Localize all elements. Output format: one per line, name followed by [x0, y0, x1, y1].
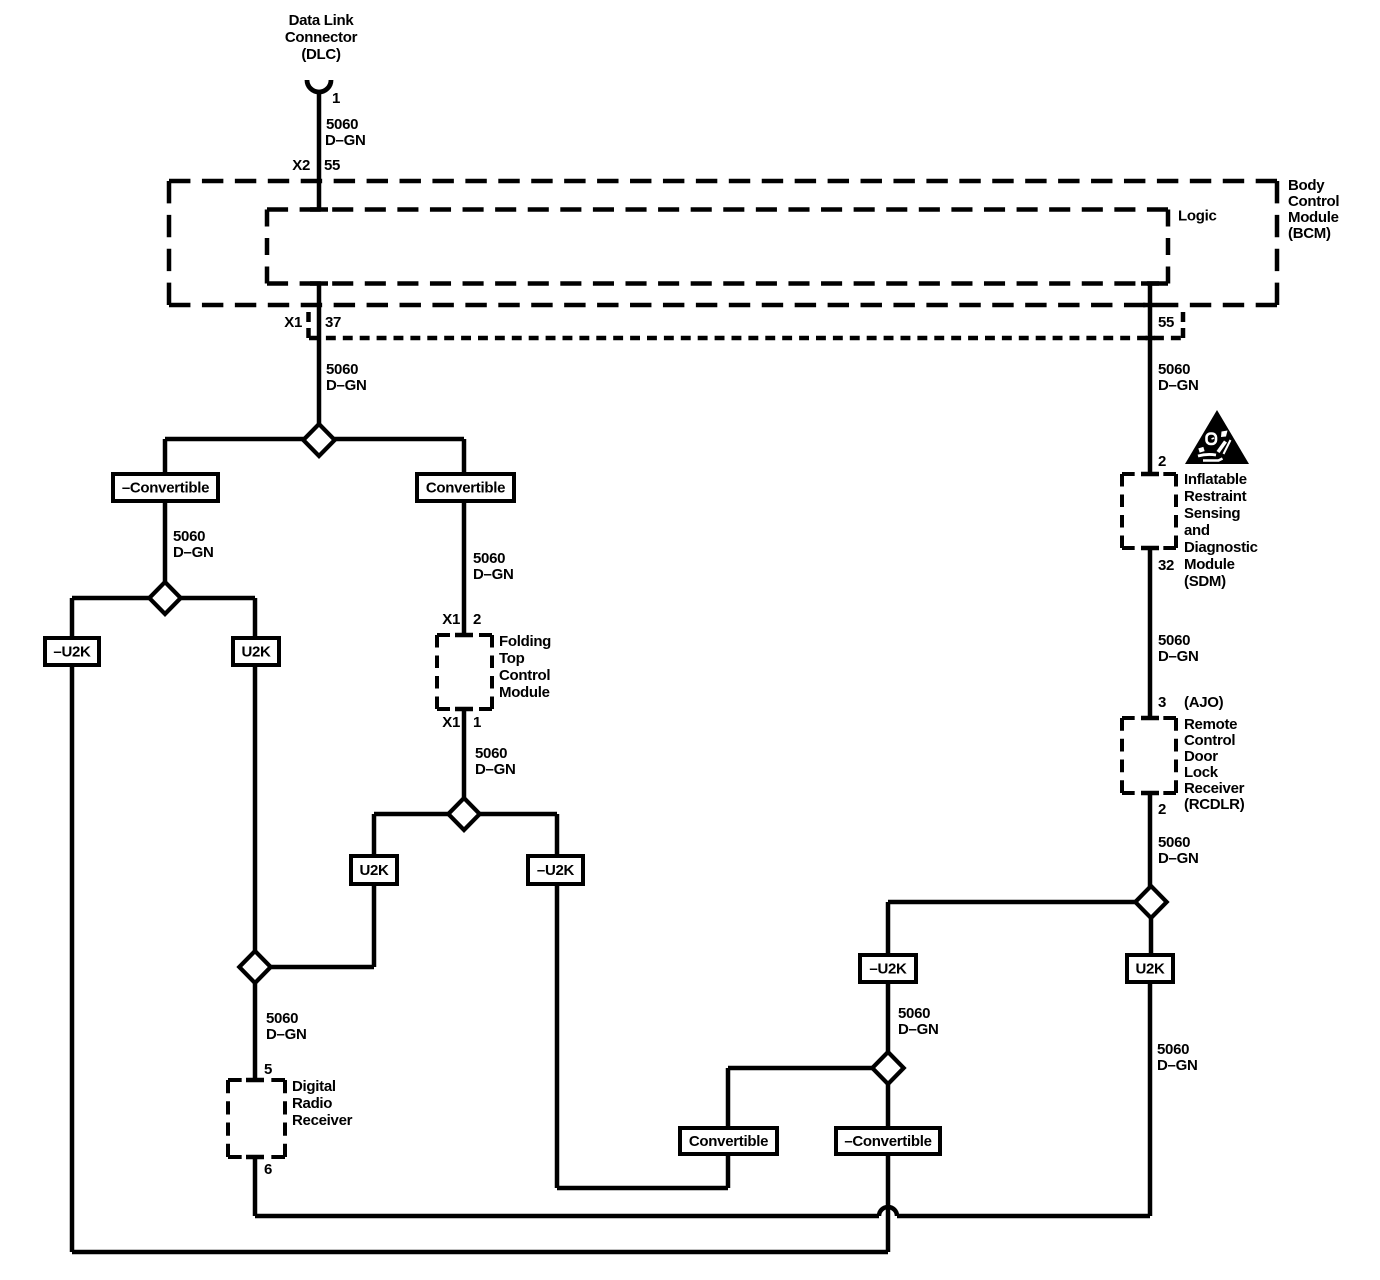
svg-text:Receiver: Receiver [292, 1112, 353, 1129]
svg-text:D–GN: D–GN [325, 132, 365, 149]
svg-text:Receiver: Receiver [1184, 780, 1245, 797]
svg-text:1: 1 [332, 90, 340, 107]
svg-text:–U2K: –U2K [869, 961, 907, 978]
svg-text:5060: 5060 [173, 528, 205, 545]
svg-text:Data Link: Data Link [289, 12, 355, 29]
svg-text:5060: 5060 [326, 116, 358, 133]
svg-text:Connector: Connector [285, 29, 358, 46]
svg-text:(RCDLR): (RCDLR) [1184, 796, 1245, 813]
svg-text:Inflatable: Inflatable [1184, 471, 1247, 488]
svg-text:Convertible: Convertible [689, 1133, 768, 1150]
svg-text:X2: X2 [292, 157, 310, 174]
svg-text:D–GN: D–GN [266, 1026, 306, 1043]
svg-text:(SDM): (SDM) [1184, 573, 1226, 590]
svg-text:Top: Top [499, 650, 525, 667]
svg-text:5060: 5060 [266, 1010, 298, 1027]
svg-text:D–GN: D–GN [898, 1021, 938, 1038]
svg-text:D–GN: D–GN [473, 566, 513, 583]
svg-text:–U2K: –U2K [537, 862, 575, 879]
svg-text:Digital: Digital [292, 1078, 336, 1095]
svg-text:Door: Door [1184, 748, 1218, 765]
svg-text:5060: 5060 [1158, 834, 1190, 851]
svg-text:Restraint: Restraint [1184, 488, 1247, 505]
svg-text:6: 6 [264, 1161, 272, 1178]
svg-text:(BCM): (BCM) [1288, 225, 1331, 242]
svg-text:55: 55 [1158, 314, 1174, 331]
svg-text:2: 2 [473, 611, 481, 628]
svg-text:Module: Module [1288, 209, 1339, 226]
svg-text:D–GN: D–GN [475, 761, 515, 778]
svg-text:Logic: Logic [1178, 208, 1217, 225]
svg-text:D–GN: D–GN [173, 544, 213, 561]
svg-text:D–GN: D–GN [1158, 377, 1198, 394]
svg-text:32: 32 [1158, 557, 1174, 574]
svg-text:Module: Module [1184, 556, 1235, 573]
svg-text:Convertible: Convertible [426, 480, 505, 497]
svg-text:U2K: U2K [241, 644, 271, 661]
svg-text:U2K: U2K [1135, 961, 1165, 978]
svg-text:Module: Module [499, 684, 550, 701]
svg-text:X1: X1 [442, 714, 460, 731]
svg-text:Folding: Folding [499, 633, 551, 650]
svg-text:5060: 5060 [473, 550, 505, 567]
svg-text:Sensing: Sensing [1184, 505, 1240, 522]
svg-text:D–GN: D–GN [1158, 850, 1198, 867]
svg-text:37: 37 [325, 314, 341, 331]
svg-text:5060: 5060 [326, 361, 358, 378]
svg-text:Control: Control [1288, 193, 1339, 210]
svg-text:D–GN: D–GN [1157, 1057, 1197, 1074]
svg-text:U2K: U2K [359, 862, 389, 879]
svg-text:–Convertible: –Convertible [122, 480, 209, 497]
svg-text:2: 2 [1158, 801, 1166, 818]
svg-text:5060: 5060 [1158, 361, 1190, 378]
svg-text:1: 1 [473, 714, 481, 731]
svg-text:5: 5 [264, 1061, 272, 1078]
svg-text:5060: 5060 [1158, 632, 1190, 649]
svg-text:Lock: Lock [1184, 764, 1219, 781]
svg-text:Remote: Remote [1184, 716, 1237, 733]
svg-text:–Convertible: –Convertible [844, 1133, 931, 1150]
svg-text:Control: Control [1184, 732, 1235, 749]
svg-text:(AJO): (AJO) [1184, 694, 1224, 711]
svg-text:Diagnostic: Diagnostic [1184, 539, 1258, 556]
svg-text:Radio: Radio [292, 1095, 332, 1112]
svg-text:5060: 5060 [475, 745, 507, 762]
svg-text:X1: X1 [284, 314, 302, 331]
svg-text:D–GN: D–GN [1158, 648, 1198, 665]
svg-text:Body: Body [1288, 177, 1325, 194]
svg-text:3: 3 [1158, 694, 1166, 711]
svg-text:X1: X1 [442, 611, 460, 628]
svg-text:D–GN: D–GN [326, 377, 366, 394]
svg-text:and: and [1184, 522, 1210, 539]
svg-text:Control: Control [499, 667, 550, 684]
svg-text:(DLC): (DLC) [301, 46, 341, 63]
svg-text:5060: 5060 [1157, 1041, 1189, 1058]
svg-text:55: 55 [324, 157, 340, 174]
svg-text:2: 2 [1158, 453, 1166, 470]
svg-text:5060: 5060 [898, 1005, 930, 1022]
svg-text:–U2K: –U2K [53, 644, 91, 661]
